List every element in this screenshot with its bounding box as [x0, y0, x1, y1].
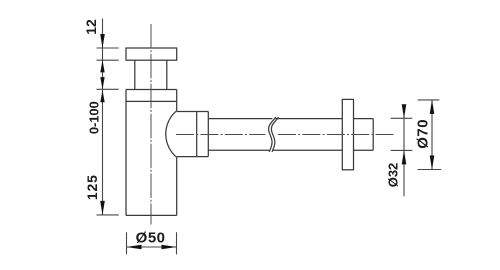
- svg-text:Ø50: Ø50: [136, 230, 166, 247]
- svg-text:125: 125: [84, 174, 100, 200]
- svg-text:Ø70: Ø70: [415, 119, 432, 149]
- svg-text:Ø32: Ø32: [386, 163, 401, 188]
- svg-text:12: 12: [83, 19, 99, 35]
- svg-text:0-100: 0-100: [87, 101, 102, 134]
